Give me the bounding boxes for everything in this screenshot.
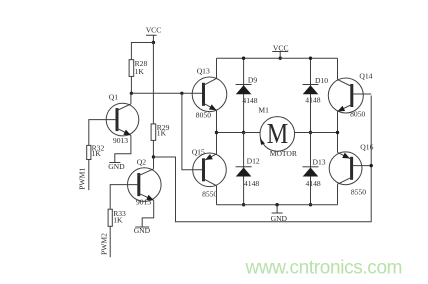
wire R29 bottom to Q2 collector node (152, 140, 154, 157)
ground GND (Q2 emitter) (134, 226, 151, 235)
node motor-left junction (215, 131, 218, 134)
svg-text:Q1: Q1 (109, 92, 118, 101)
node D10/D13 on motor rail (309, 131, 312, 134)
svg-text:4148: 4148 (242, 96, 257, 105)
wire H-bridge ground rail (217, 204, 338, 206)
node D12 bottom on ground rail (242, 203, 245, 206)
wire Q16 emitter to motor-right node (337, 133, 339, 153)
diode D9 (4148) (236, 58, 258, 132)
svg-text:1K: 1K (135, 67, 145, 76)
svg-text:4148: 4148 (306, 179, 321, 188)
svg-text:GND: GND (134, 226, 151, 235)
wire Q2 base to R33 (110, 185, 138, 210)
svg-text:D10: D10 (315, 76, 328, 85)
svg-text:Q13: Q13 (197, 67, 210, 76)
wire Q1 collector stub (130, 93, 132, 104)
wire R28 bottom to Q1 collector node (130, 76, 132, 93)
resistor R32 (87, 143, 105, 159)
wire Q15 emitter to motor-left node (216, 133, 218, 154)
resistor R28 (129, 59, 147, 76)
transistor Q13 (8050 NPN) (192, 67, 227, 120)
node D9 top on VCC rail (242, 57, 245, 60)
wire Q14 emitter to motor-right node (337, 111, 339, 132)
transistor Q15 (8550 PNP) (192, 148, 227, 199)
wire motor rail right (295, 132, 338, 134)
resistor R33 (108, 209, 126, 226)
node Q16 base junction (370, 164, 373, 167)
power VCC (H-bridge) symbol (272, 44, 288, 59)
node Q1 collector / R28 junction (130, 92, 133, 95)
wire Q13 base node down to Q15 base (182, 93, 203, 170)
transistor Q1 (9013 NPN) (106, 92, 139, 144)
svg-text:D9: D9 (248, 76, 257, 85)
svg-text:VCC: VCC (273, 44, 289, 53)
wire Q13 collector to VCC rail (216, 58, 218, 78)
svg-text:M: M (267, 118, 289, 150)
transistor Q16 (8550 PNP) (329, 143, 373, 197)
wire R32 bottom to PWM1 input (88, 160, 90, 191)
transistor Q14 (8050 NPN) (328, 71, 372, 118)
svg-text:Q15: Q15 (192, 148, 205, 157)
svg-text:1K: 1K (92, 149, 102, 158)
node D13 bottom on ground rail (309, 203, 312, 206)
ground GND (H-bridge) (271, 205, 288, 223)
node VCC-left junction (152, 41, 155, 44)
resistor R29 (151, 123, 170, 140)
wire Q16 collector to ground rail (337, 184, 339, 205)
svg-text:D13: D13 (313, 158, 326, 167)
wire VCC rail down through R29 (upper segment) (152, 43, 154, 124)
wire Q16 base to right bus (353, 165, 372, 167)
wire Q2 collector stub (153, 157, 155, 169)
svg-text:9013: 9013 (113, 136, 128, 145)
wire Q1 emitter to ground (115, 135, 131, 162)
diode D10 (4148) (303, 58, 329, 132)
svg-text:1K: 1K (113, 216, 123, 225)
wire Q2 collector node to H-bridge right bases (154, 96, 372, 222)
wire H-bridge VCC top rail (217, 57, 338, 59)
node Q2 collector / R29 junction (152, 155, 155, 158)
wire Q14 collector to VCC rail (337, 58, 339, 79)
wire VCC node to R28 top (131, 43, 153, 60)
svg-text:9013: 9013 (136, 198, 151, 207)
svg-text:Q2: Q2 (137, 157, 146, 166)
svg-text:VCC: VCC (146, 25, 162, 34)
wire Q2 emitter to ground (142, 200, 154, 227)
wire Q14 base to right bus (353, 93, 371, 95)
svg-text:8050: 8050 (196, 111, 211, 120)
svg-text:M1: M1 (258, 106, 269, 115)
svg-text:PWM1: PWM1 (78, 168, 87, 190)
wire motor rail left (217, 132, 261, 134)
svg-text:GND: GND (108, 162, 125, 171)
transistor Q2 (9013 NPN) (128, 157, 162, 206)
diode D13 (4148) (303, 133, 326, 205)
svg-text:4148: 4148 (305, 96, 320, 105)
wire Q13 emitter to motor-left node (216, 110, 218, 132)
svg-text:8550: 8550 (202, 189, 217, 198)
svg-text:GND: GND (271, 214, 288, 223)
diode D12 (4148) (236, 133, 260, 205)
power VCC (left driver) symbol (146, 25, 162, 42)
motor M1 (258, 106, 298, 158)
node ground stub on rail (275, 203, 278, 206)
svg-text:8550: 8550 (351, 188, 366, 197)
svg-text:D12: D12 (247, 156, 260, 165)
node motor-right junction (336, 131, 339, 134)
svg-text:MOTOR: MOTOR (270, 149, 298, 158)
svg-text:www.cntronics.com: www.cntronics.com (245, 258, 403, 279)
svg-text:1K: 1K (157, 129, 167, 138)
svg-text:4148: 4148 (244, 179, 259, 188)
node Q13 base junction (180, 92, 183, 95)
svg-text:Q14: Q14 (359, 71, 372, 80)
wire Q1 base to R32 (89, 120, 116, 146)
wire Q13 base node to Q13 (182, 92, 203, 94)
wire Q1 collector node to Q13 base node (131, 92, 182, 94)
svg-text:Q16: Q16 (360, 143, 373, 152)
node D9/D12 on motor rail (242, 131, 245, 134)
wire Q15 collector to ground rail (216, 186, 218, 205)
node VCC stub on top rail (279, 57, 282, 60)
svg-text:8050: 8050 (350, 109, 365, 118)
svg-text:PWM2: PWM2 (99, 233, 108, 255)
node D10 top on VCC rail (309, 57, 312, 60)
ground GND (Q1 emitter) (108, 162, 125, 171)
wire R33 bottom to PWM2 input (109, 226, 111, 257)
